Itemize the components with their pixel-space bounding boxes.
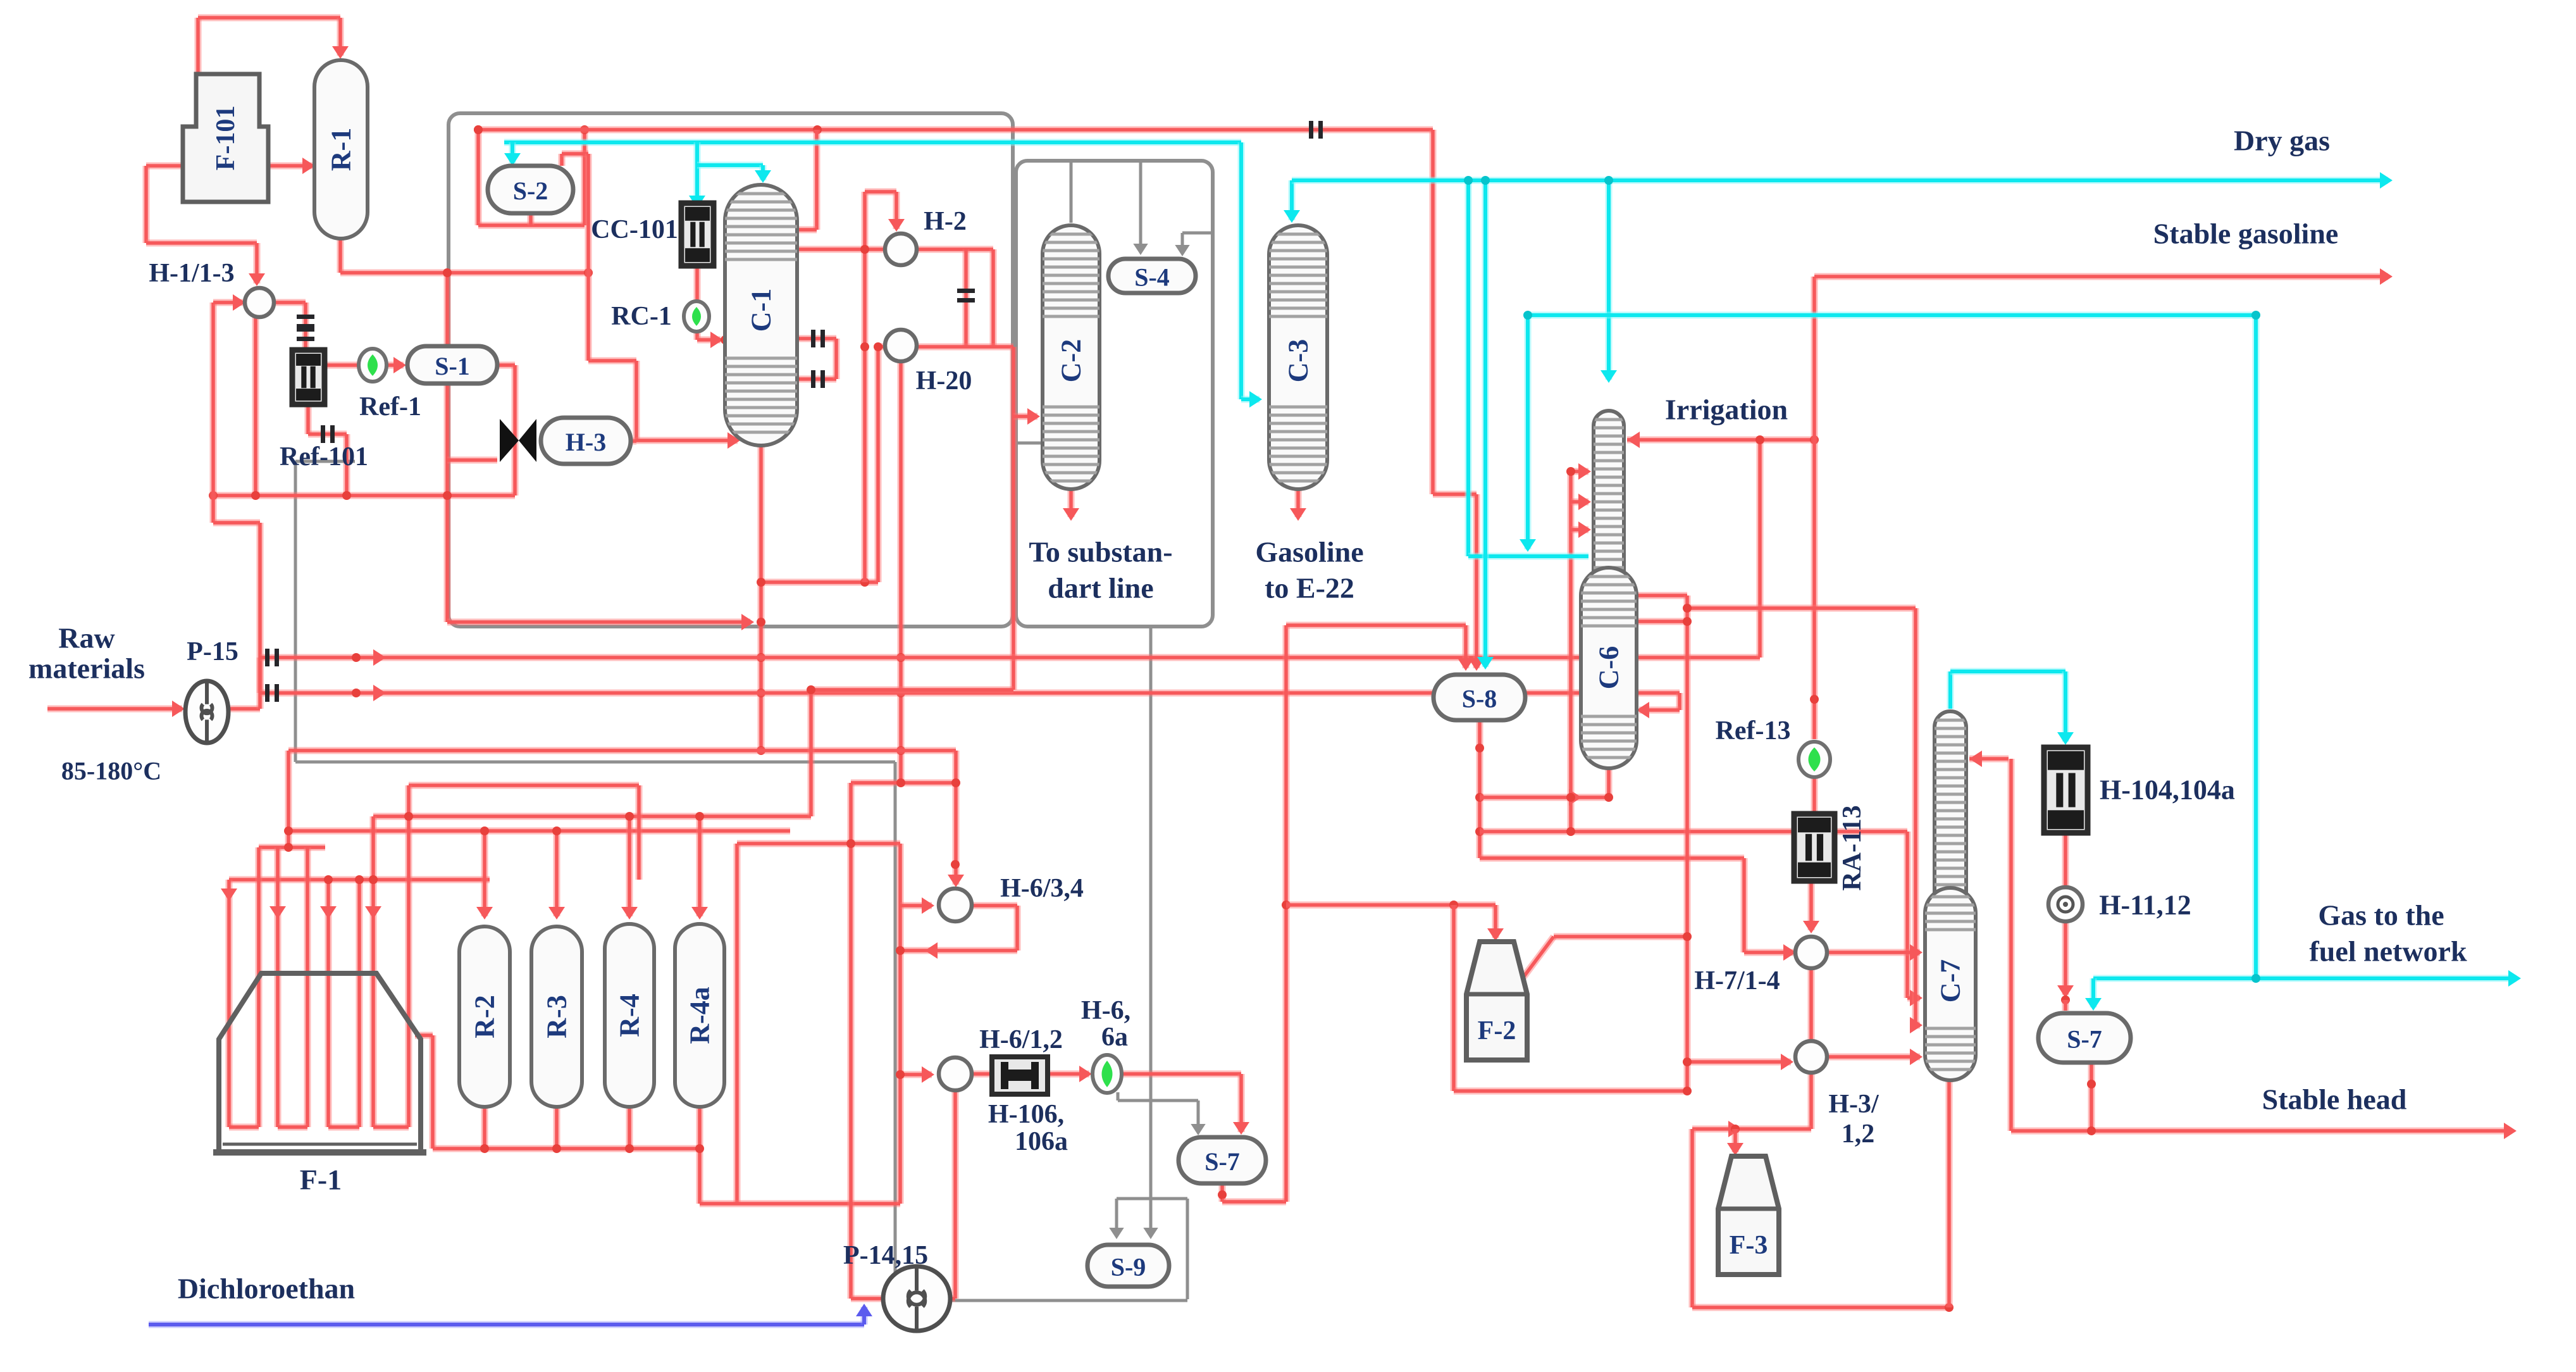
wire S-7 bottom: [1219, 1183, 1226, 1202]
wire Ref-101 to Ref-1: [325, 362, 359, 369]
svg-text:Raw: Raw: [58, 622, 115, 654]
svg-text:H-3/: H-3/: [1828, 1090, 1879, 1119]
junction: [1683, 932, 1692, 941]
flow arrow: [1569, 789, 1582, 806]
wire F-2 loop left: [1451, 905, 1458, 1091]
wire cyan cross line: [1528, 312, 2256, 319]
wire gas to fuel network: [2093, 975, 2517, 982]
flow arrow: [302, 158, 315, 174]
wire furnace tube: [325, 880, 332, 1127]
wire H-104 to H-11,12: [2062, 833, 2069, 888]
svg-text:R-3: R-3: [542, 995, 573, 1038]
wire R-1 bottom: [337, 239, 344, 273]
junction: [1604, 176, 1613, 185]
wire furnace tube: [256, 847, 263, 1127]
wire furnace tube: [356, 880, 363, 1127]
exchanger tick marks: [321, 425, 325, 443]
pump P-15: [185, 681, 228, 743]
wire to C-7 area: [1687, 605, 1916, 612]
wire into C-6: [1639, 707, 1680, 714]
junction: [1464, 176, 1473, 185]
svg-text:Dichloroethan: Dichloroethan: [178, 1273, 355, 1305]
svg-text:H-6/3,4: H-6/3,4: [1000, 874, 1084, 903]
wire into S-7: [2090, 978, 2097, 1007]
wire H-6,6a out: [1121, 1071, 1241, 1078]
junction: [757, 618, 765, 627]
wire to H-7 feed: [1480, 855, 1744, 862]
wire F-101 top riser: [195, 18, 202, 74]
junction: [480, 1144, 489, 1153]
reactor R-4a: [675, 924, 724, 1107]
junction: [951, 778, 960, 787]
junction: [209, 491, 218, 500]
flow arrow: [728, 432, 740, 449]
flow arrow: [922, 1066, 934, 1083]
wire furnace return: [430, 1035, 437, 1149]
wire: [1916, 1022, 1920, 1029]
wire C-3 top: [1289, 180, 1296, 220]
wire trunk to S-2 loop: [475, 130, 482, 225]
svg-text:dart line: dart line: [1048, 572, 1153, 604]
wire gray into S-9: [1115, 1199, 1118, 1235]
svg-text:C-2: C-2: [1056, 339, 1087, 382]
wire: [1222, 1199, 1286, 1206]
reactor R-1: [314, 60, 368, 239]
wire gray below H-6 6a: [1117, 1092, 1120, 1101]
flask F-3: [1718, 1156, 1779, 1275]
wire left loop: [444, 273, 451, 622]
svg-text:H-7/1-4: H-7/1-4: [1694, 966, 1780, 995]
junction: [1683, 604, 1692, 613]
wire C-1 reboiler return: [795, 376, 836, 383]
flow arrow: [1487, 928, 1504, 941]
separator S-2: [488, 166, 573, 213]
wire top run to R-1: [198, 15, 340, 22]
junction: [580, 125, 589, 134]
svg-text:H-11,12: H-11,12: [2099, 890, 2191, 921]
wire H-3 bottom: [1808, 1072, 1815, 1129]
junction: [1683, 1057, 1692, 1066]
heat exchanger H-6/3,4: [939, 889, 972, 921]
furnace F-1: [219, 973, 421, 1152]
wire gray hook to S-7: [1118, 1099, 1198, 1102]
junction: [1604, 793, 1613, 802]
junction: [791, 375, 800, 384]
wire into S-8: [1473, 494, 1480, 668]
svg-text:S-8: S-8: [1462, 685, 1497, 713]
svg-text:S-7: S-7: [1204, 1147, 1240, 1176]
flow arrow: [1109, 1228, 1124, 1239]
H-3 valve bowtie: [500, 419, 519, 462]
svg-text:H-6/1,2: H-6/1,2: [979, 1025, 1063, 1054]
wire into H-2 top: [893, 192, 900, 229]
column C-6: [1594, 411, 1624, 595]
wire: [1912, 608, 1919, 1025]
wire: [1950, 668, 2065, 675]
wire reactor feed: [626, 816, 633, 916]
junction: [443, 491, 452, 500]
wire S-7 bottom: [2088, 1063, 2095, 1131]
wire riser to irrigation line: [1757, 440, 1764, 658]
wire into H-3/1,2 left: [1687, 1059, 1791, 1066]
wire manifold row 2: [409, 782, 639, 789]
wire into H-3 valve: [447, 457, 497, 464]
junction: [2061, 995, 2070, 1004]
wire H-6/1,2 bottom to pump: [952, 1091, 959, 1299]
wire cyan into S-8: [1482, 180, 1489, 667]
wire: [633, 361, 640, 441]
wire manifold row 4: [287, 828, 790, 835]
wire: [143, 166, 150, 243]
junction: [1523, 311, 1532, 320]
wire into F-3: [1732, 1129, 1739, 1152]
wire into H-104: [2062, 671, 2069, 742]
junction: [896, 946, 905, 955]
junction: [552, 826, 561, 835]
furnace F-101: [183, 74, 268, 202]
wire: [285, 751, 292, 847]
wire pump out: [228, 706, 260, 713]
wire gray S-4 second hook: [1181, 233, 1184, 254]
junction: [324, 875, 333, 884]
wire S-2 top right: [559, 154, 566, 166]
svg-text:C-3: C-3: [1283, 339, 1314, 382]
svg-text:fuel network: fuel network: [2309, 935, 2467, 968]
wire cyan jog to C-1: [697, 162, 763, 169]
wire: [308, 431, 347, 438]
flow arrow: [1290, 508, 1306, 521]
junction: [480, 826, 489, 835]
wire cyan into C-6 top: [1606, 180, 1613, 380]
flow arrow: [269, 906, 286, 919]
junction: [1282, 901, 1291, 909]
flow arrow: [1910, 990, 1923, 1006]
svg-text:F-101: F-101: [211, 106, 240, 171]
column C-2: [1043, 225, 1099, 489]
wire furnace tube: [406, 785, 412, 1127]
wire manifold row 3: [373, 813, 811, 820]
condenser H-3: [541, 418, 631, 464]
valve H-6,6a: [1093, 1055, 1122, 1093]
wire H-20 bottom drop: [898, 361, 905, 783]
wire tube bottom: [229, 1124, 259, 1131]
flow arrow: [476, 907, 493, 920]
wire into C-3: [1241, 396, 1260, 403]
exchanger H-104,104a: [2044, 747, 2088, 833]
svg-text:6a: 6a: [1101, 1023, 1128, 1052]
wire C-1 to H-2 run: [795, 246, 993, 253]
svg-text:85-180°C: 85-180°C: [61, 757, 161, 785]
wire R-1 bottom run: [340, 270, 588, 277]
flow arrow: [2085, 998, 2102, 1011]
wire to F-2: [1286, 902, 1495, 909]
wire gray stub into C-2 left: [1016, 442, 1043, 445]
junction: [352, 689, 361, 697]
junction: [896, 653, 905, 662]
flow arrow: [1468, 658, 1485, 671]
exchanger tick marks: [957, 289, 975, 293]
flow arrow: [925, 942, 938, 959]
wire reactor collect: [433, 1145, 700, 1152]
flow arrow: [888, 219, 905, 232]
wire F-3 loop bottom: [1692, 1304, 1949, 1311]
heat exchanger H-20: [885, 330, 917, 361]
wire H-3 out to C-7: [1826, 1054, 1920, 1061]
wire irrigation: [1627, 437, 1814, 444]
flow arrow: [1578, 463, 1591, 480]
separator S-9: [1087, 1245, 1169, 1287]
wire to C-6 bottom: [1480, 794, 1609, 801]
svg-text:H-20: H-20: [916, 366, 972, 396]
junction: [1449, 901, 1458, 909]
wire into C-7 top: [1969, 756, 2009, 763]
junction: [1475, 744, 1484, 752]
wire into C-6 neck: [1571, 527, 1588, 533]
wire reactor collect low: [700, 1200, 900, 1207]
wire C-2 bottom: [1068, 489, 1075, 517]
wire H-7 out to C-7: [1826, 949, 1920, 956]
flow arrow: [1783, 944, 1796, 961]
wire: [562, 151, 588, 158]
wire: [633, 440, 640, 441]
wire long drop: [1684, 596, 1691, 1091]
svg-text:materials: materials: [28, 652, 145, 685]
svg-text:Irrigation: Irrigation: [1665, 394, 1788, 426]
flow arrow: [2380, 172, 2393, 189]
wire reactor feed: [554, 831, 560, 916]
wire C-6 bottom: [1606, 768, 1613, 797]
wire: [636, 785, 643, 880]
wire tube bottom: [373, 1124, 409, 1131]
wire furnace tube: [370, 816, 377, 1127]
junction: [352, 653, 361, 662]
wire gray hook over S-9: [1117, 1197, 1187, 1200]
junction: [552, 1144, 561, 1153]
wire riser from P-15: [257, 523, 264, 693]
junction: [2087, 1080, 2096, 1088]
wire into C-2: [1013, 413, 1037, 420]
heat exchanger H-6/1,2: [939, 1057, 972, 1090]
junction: [757, 746, 765, 755]
wire S-1 right: [497, 362, 515, 369]
junction: [625, 1144, 634, 1153]
flow arrow: [1969, 751, 1982, 767]
wire under C-1: [761, 579, 878, 586]
wire into C-6 neck: [1571, 499, 1588, 506]
wire RA-113 to H-7: [1808, 881, 1815, 930]
wire H-6 spine: [897, 844, 904, 1204]
wire furnace tube: [226, 880, 233, 1127]
svg-text:S-4: S-4: [1134, 263, 1170, 292]
wire long lower distribution: [260, 690, 1680, 697]
wire: [1692, 1126, 1811, 1133]
wire gray into S-7 top: [1197, 1101, 1200, 1132]
flow arrow: [1143, 1228, 1158, 1239]
wire over H-2: [865, 189, 896, 196]
flow arrow: [922, 897, 934, 914]
wire: [1433, 491, 1477, 498]
svg-text:P-15: P-15: [187, 637, 238, 666]
wire: [1676, 693, 1683, 710]
wire H-6/3,4 right: [972, 902, 1017, 909]
column C-3: [1269, 225, 1327, 489]
wire to H-106: [972, 1071, 991, 1078]
wire H-1 bottom drop: [252, 317, 259, 496]
junction: [284, 843, 293, 852]
wire drop: [875, 347, 882, 582]
gray section box 1 (reactor block): [449, 113, 1013, 627]
junction: [1683, 617, 1692, 626]
wire: [415, 1032, 433, 1039]
flow arrow: [393, 357, 406, 373]
svg-text:Ref-1: Ref-1: [359, 392, 421, 421]
heat exchanger H-3/1,2: [1795, 1041, 1827, 1073]
wire H-7 to H-3/1,2: [1808, 968, 1815, 1042]
flow arrow: [1910, 1017, 1923, 1033]
junction: [695, 1144, 704, 1153]
wire: [1014, 906, 1021, 951]
flow arrow: [320, 906, 337, 919]
wire top red trunk: [478, 127, 1433, 134]
wire C-7 bottom outlet: [1946, 1080, 1953, 1307]
wire bottom run: [447, 619, 750, 626]
wire C-3 bottom: [1295, 489, 1302, 517]
wire CC-101 to RC-1: [694, 266, 701, 302]
wire into C-1 bottom left: [636, 437, 738, 444]
svg-text:S-2: S-2: [513, 177, 548, 205]
wire into pump: [851, 1295, 884, 1302]
junction: [2251, 311, 2260, 320]
svg-text:S-7: S-7: [2067, 1025, 2102, 1054]
wire collect riser: [734, 844, 741, 1204]
wire into Ref-101: [302, 302, 309, 350]
wire: [697, 1149, 703, 1204]
heat exchanger H-1/1-3: [245, 288, 274, 317]
svg-text:R-4: R-4: [614, 994, 645, 1037]
flow arrow: [689, 196, 705, 208]
svg-text:C-7: C-7: [1935, 959, 1966, 1002]
wire trunk drop: [1430, 130, 1437, 494]
svg-text:S-1: S-1: [435, 352, 470, 380]
wire manifold top: [288, 747, 956, 754]
wire H-20 run: [878, 344, 1013, 351]
wire gray hook to box edge: [1182, 232, 1213, 235]
junction: [1756, 435, 1764, 444]
flow arrow: [221, 889, 237, 901]
wire: [900, 947, 1017, 954]
wire into R-1 top: [337, 18, 344, 56]
junction: [1475, 793, 1484, 802]
reactor R-3: [531, 926, 582, 1107]
wire: [949, 1295, 955, 1302]
wire: [833, 339, 840, 379]
wire C-7 overhead: [1947, 671, 1954, 709]
wire Ref-1 to S-1: [387, 362, 404, 369]
flow arrow: [1627, 432, 1640, 448]
exchanger tick marks: [265, 684, 269, 702]
wire C-1 reboiler out: [795, 335, 836, 342]
wire dichloroethan: [149, 1321, 864, 1328]
flow arrow: [2057, 985, 2074, 998]
wire: [808, 690, 815, 816]
junction: [474, 125, 483, 134]
svg-text:1,2: 1,2: [1842, 1119, 1875, 1149]
valve Ref-13: [1799, 742, 1830, 777]
wire long drop: [1010, 347, 1017, 690]
svg-text:F-1: F-1: [300, 1164, 342, 1196]
wire: [737, 840, 900, 847]
flow arrow: [249, 273, 265, 286]
wire cyan long drop: [2253, 315, 2260, 978]
svg-text:R-4a: R-4a: [684, 987, 715, 1044]
junction: [625, 812, 634, 821]
flow arrow: [1233, 1122, 1249, 1135]
flask F-2: [1466, 942, 1527, 1060]
wire gray box to S-9: [1149, 627, 1153, 1235]
wire to S-8: [1286, 622, 1466, 629]
exchanger tick marks: [811, 370, 815, 388]
junction: [584, 268, 593, 277]
junction: [757, 578, 765, 587]
junction: [896, 746, 905, 755]
flow arrow: [172, 701, 185, 717]
valve Ref-1: [359, 349, 387, 382]
junction: [1945, 1303, 1954, 1312]
wire: [588, 358, 636, 365]
svg-text:to E-22: to E-22: [1265, 572, 1354, 604]
wire C-1 bottom outlet: [758, 446, 765, 751]
wire furnace tube: [275, 847, 282, 1127]
junction: [1475, 827, 1484, 836]
flow arrow: [548, 907, 565, 920]
separator S-1: [407, 346, 497, 384]
wire: [257, 658, 264, 709]
flow arrow: [755, 170, 771, 183]
wire long run to C-7: [1480, 828, 1907, 835]
junction: [1810, 695, 1819, 704]
wire to H-6/3,4: [953, 751, 960, 885]
wire cyan to C-6: [1468, 553, 1588, 560]
wire into S-7: [1238, 1074, 1245, 1132]
flow arrow: [2508, 970, 2521, 987]
flow arrow: [373, 649, 386, 666]
junction: [1810, 435, 1819, 444]
svg-text:F-3: F-3: [1730, 1231, 1768, 1260]
svg-text:Gas to the: Gas to the: [2318, 899, 2444, 932]
exchanger ticks: [297, 315, 314, 319]
flow arrow: [365, 906, 381, 919]
wire stable gasoline: [1814, 273, 2388, 280]
exchanger H-106,106a: [992, 1057, 1048, 1094]
junction: [1566, 793, 1575, 802]
controller CC-101: [681, 203, 714, 266]
wire reactor bottom: [481, 1107, 488, 1149]
flow arrow: [2380, 268, 2393, 285]
flow arrow: [1175, 245, 1189, 256]
svg-text:Stable head: Stable head: [2262, 1083, 2407, 1116]
flow arrow: [1803, 921, 1819, 933]
wire tube bottom: [328, 1124, 359, 1131]
wire F-101 to R-1: [268, 163, 313, 170]
junction: [860, 245, 869, 254]
wire furnace tube: [304, 847, 311, 1127]
svg-text:Gasoline: Gasoline: [1255, 536, 1363, 568]
flow arrow: [233, 294, 245, 311]
junction: [951, 860, 960, 869]
wire: [213, 520, 260, 527]
flow arrow: [1727, 1143, 1743, 1156]
wire gray riser right of S-9: [1186, 1199, 1189, 1299]
